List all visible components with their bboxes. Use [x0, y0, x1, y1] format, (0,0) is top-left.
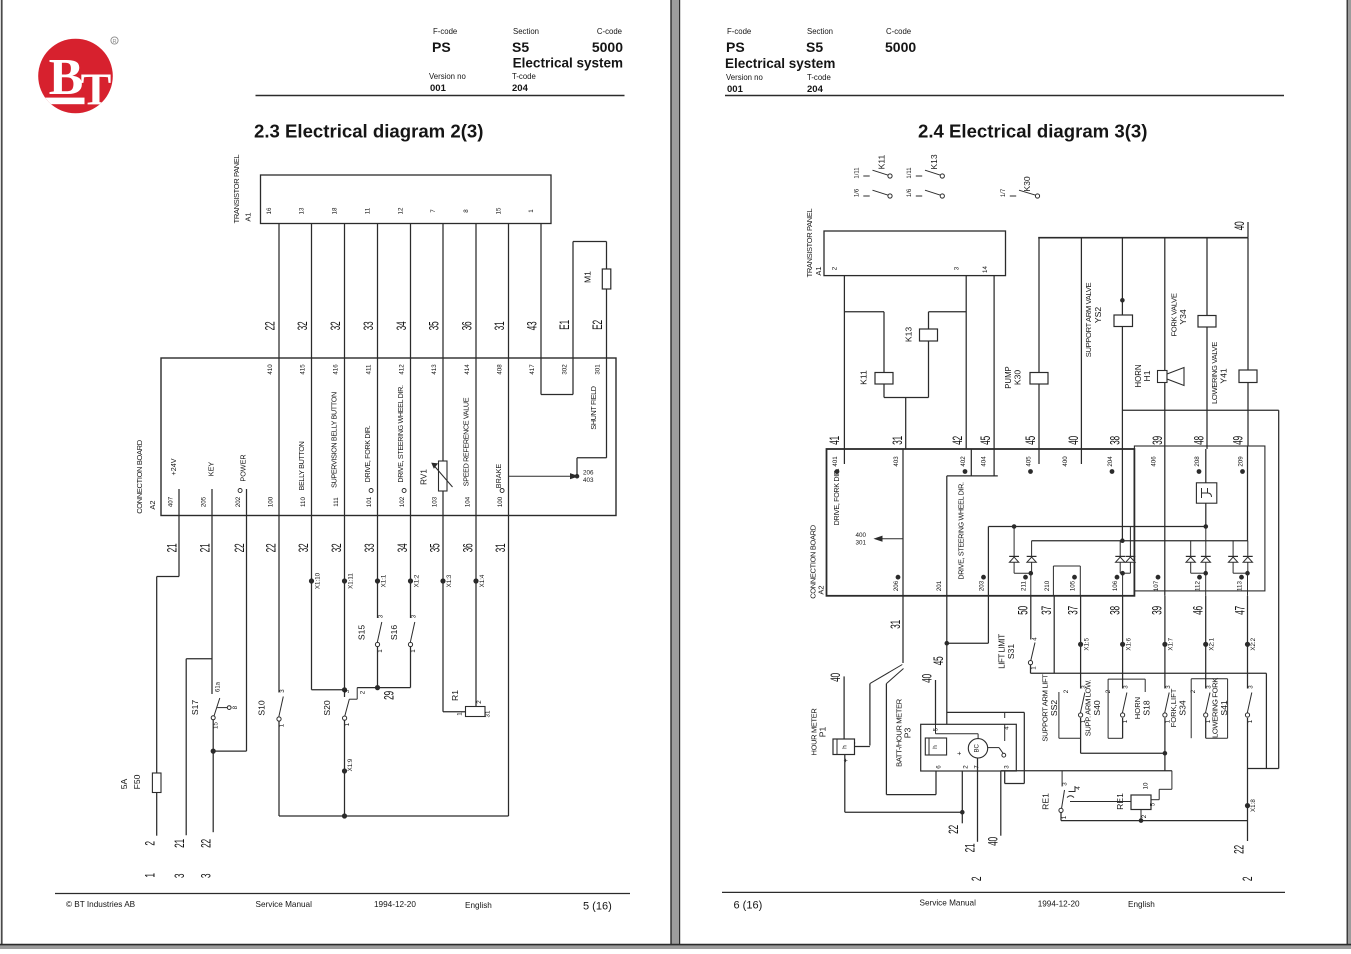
svg-text:PS: PS — [432, 39, 451, 55]
junction X1:7 label — [1168, 637, 1175, 650]
svg-text:211: 211 — [1021, 581, 1028, 591]
svg-text:6: 6 — [936, 765, 943, 769]
svg-text:22: 22 — [1232, 845, 1246, 854]
relay contact K11 1/11 — [855, 154, 893, 178]
svg-text:1994-12-20: 1994-12-20 — [1038, 900, 1080, 909]
wire 37 label — [1066, 606, 1080, 615]
svg-text:S16: S16 — [389, 625, 399, 641]
svg-text:402: 402 — [960, 456, 967, 467]
wire 40 stub (RE1 feed) — [986, 771, 1000, 846]
svg-text:415: 415 — [300, 364, 307, 375]
svg-text:22: 22 — [947, 825, 961, 834]
svg-text:R: R — [112, 39, 116, 45]
svg-text:1994-12-20: 1994-12-20 — [374, 900, 416, 909]
svg-text:Electrical system: Electrical system — [513, 56, 623, 71]
svg-text:15: 15 — [495, 207, 502, 214]
svg-text:T-code: T-code — [807, 73, 831, 82]
svg-text:F50: F50 — [132, 774, 142, 789]
svg-text:408: 408 — [497, 364, 504, 375]
svg-text:F-code: F-code — [727, 27, 751, 36]
svg-text:YS2: YS2 — [1093, 307, 1103, 323]
svg-text:16: 16 — [266, 207, 273, 214]
svg-text:410: 410 — [267, 364, 274, 375]
microswitch SS2 (SUPPORT ARM LIFT) — [1041, 596, 1088, 742]
svg-text:POWER: POWER — [239, 454, 248, 481]
support arm valve YS2 — [1084, 238, 1133, 449]
svg-text:X1:9: X1:9 — [347, 758, 354, 771]
svg-text:SPEED REFERENCE VALUE: SPEED REFERENCE VALUE — [462, 397, 471, 486]
svg-text:39: 39 — [1151, 436, 1165, 445]
svg-text:3: 3 — [1123, 685, 1130, 689]
connector A1 transistor panel (left page) — [232, 154, 551, 223]
svg-text:31: 31 — [494, 544, 508, 553]
svg-text:K11: K11 — [877, 154, 887, 169]
svg-text:38: 38 — [1108, 606, 1122, 615]
svg-text:+24V: +24V — [169, 458, 178, 475]
lift limit switch S31 — [998, 596, 1039, 670]
svg-text:X1:10: X1:10 — [314, 572, 321, 589]
wire 34 with junction X1:2 — [396, 516, 420, 619]
svg-text:X1:3: X1:3 — [446, 574, 453, 587]
svg-text:SS2: SS2 — [1049, 700, 1059, 716]
svg-text:31: 31 — [493, 322, 507, 331]
svg-text:E1: E1 — [558, 320, 572, 330]
svg-text:100: 100 — [497, 496, 504, 507]
svg-text:BRAKE: BRAKE — [494, 464, 503, 489]
svg-text:S5: S5 — [806, 39, 823, 55]
internal link pin417 to pin302 — [541, 358, 573, 395]
svg-text:203: 203 — [979, 580, 986, 591]
ground rail (left page bottom) — [279, 814, 509, 818]
svg-text:Electrical system: Electrical system — [725, 56, 835, 71]
svg-text:H1: H1 — [1142, 370, 1152, 381]
svg-text:407: 407 — [168, 496, 175, 507]
svg-text:3: 3 — [1165, 685, 1172, 689]
svg-text:101: 101 — [366, 496, 373, 507]
connection board A2 (left page) — [135, 358, 616, 516]
svg-text:© BT Industries AB: © BT Industries AB — [66, 900, 136, 909]
microswitch S18 (HORN) — [1133, 596, 1172, 723]
svg-text:11: 11 — [364, 207, 371, 214]
relay contact K11 1/6 — [855, 188, 893, 198]
svg-text:12: 12 — [397, 207, 404, 214]
svg-text:209: 209 — [1238, 456, 1245, 467]
ground bus to wire 22 (right page) — [1061, 806, 1255, 882]
svg-text:8: 8 — [463, 209, 470, 213]
junction X1:5 label — [1083, 637, 1090, 650]
wire 21 (+24V feed) with step — [157, 516, 180, 774]
A2 bottom pin labels 206..113 — [893, 575, 1244, 591]
wire P1 plus to wire 22 — [845, 755, 963, 813]
microswitch S41 (LOWERING FORK) — [1211, 596, 1255, 738]
S34 nc contact loop — [1190, 679, 1228, 738]
svg-text:A2: A2 — [817, 585, 826, 594]
svg-text:3: 3 — [378, 614, 385, 618]
svg-text:TRANSISTOR PANEL: TRANSISTOR PANEL — [232, 154, 241, 223]
wire 41 from A1 pin 2 — [828, 276, 884, 449]
svg-text:3: 3 — [1062, 782, 1069, 786]
svg-text:417: 417 — [529, 364, 536, 375]
svg-text:38: 38 — [1108, 436, 1122, 445]
svg-text:204: 204 — [1107, 456, 1114, 467]
svg-text:RV1: RV1 — [420, 469, 429, 485]
svg-text:P1: P1 — [818, 727, 828, 738]
svg-text:35: 35 — [428, 322, 442, 331]
svg-text:206: 206 — [583, 470, 594, 477]
svg-text:1/6: 1/6 — [855, 188, 861, 197]
diode pair 3 in A2 — [1186, 527, 1211, 596]
svg-text:50: 50 — [1016, 606, 1030, 615]
left page header block — [256, 27, 625, 96]
svg-text:21: 21 — [173, 839, 187, 848]
svg-text:CONNECTION BOARD: CONNECTION BOARD — [135, 439, 144, 514]
hour meter P1 — [810, 708, 860, 763]
svg-text:32: 32 — [297, 544, 311, 553]
svg-text:R1: R1 — [450, 690, 460, 701]
right page header block — [725, 27, 1284, 96]
svg-text:405: 405 — [1026, 456, 1033, 467]
wire 33 with junction X1:1 — [363, 516, 387, 619]
svg-text:PS: PS — [726, 39, 745, 55]
left page footer — [55, 894, 630, 913]
svg-text:X1:2: X1:2 — [413, 574, 420, 587]
svg-text:22: 22 — [265, 544, 279, 553]
svg-text:3: 3 — [1004, 765, 1011, 769]
svg-text:X1:6: X1:6 — [1125, 637, 1132, 650]
svg-text:Service Manual: Service Manual — [920, 899, 977, 908]
wire 32 with junction X1:11 — [330, 516, 354, 698]
svg-text:32: 32 — [330, 544, 344, 553]
svg-text:S31: S31 — [1006, 644, 1016, 660]
svg-text:English: English — [465, 901, 492, 910]
svg-text:Service Manual: Service Manual — [256, 900, 313, 909]
svg-text:29: 29 — [382, 691, 396, 700]
relay coil K13 — [904, 312, 967, 398]
svg-text:+: + — [843, 758, 850, 762]
wire 29 bus S20 to S15/S16 — [357, 686, 410, 700]
svg-text:5: 5 — [1150, 802, 1157, 806]
svg-text:Section: Section — [807, 27, 833, 36]
svg-text:Y41: Y41 — [1219, 368, 1229, 384]
svg-text:41: 41 — [828, 436, 842, 445]
diode pair 4 in A2 — [1228, 541, 1253, 596]
svg-text:A1: A1 — [814, 266, 823, 275]
svg-text:204: 204 — [512, 83, 529, 94]
svg-text:47: 47 — [1233, 606, 1247, 615]
wires A1 to A2: 22 32 32 33 34 35 36 31 43 — [264, 224, 541, 359]
svg-text:2: 2 — [360, 690, 367, 694]
svg-text:40: 40 — [920, 674, 934, 683]
motor element M1 — [583, 269, 611, 289]
svg-text:406: 406 — [1151, 456, 1158, 467]
wire below S20 junction X1:9 — [342, 720, 354, 816]
svg-text:Version no: Version no — [429, 72, 467, 81]
svg-text:C-code: C-code — [597, 27, 622, 36]
svg-text:36: 36 — [461, 322, 475, 331]
svg-text:32: 32 — [296, 322, 310, 331]
svg-text:10: 10 — [1143, 782, 1150, 789]
RE1 supply link — [1001, 771, 1172, 800]
svg-text:SUPPORT ARM VALVE: SUPPORT ARM VALVE — [1084, 282, 1093, 357]
svg-text:E2: E2 — [591, 320, 605, 330]
svg-text:S5: S5 — [512, 39, 529, 55]
svg-text:3: 3 — [954, 266, 961, 270]
svg-text:P3: P3 — [903, 728, 913, 739]
svg-text:36: 36 — [462, 544, 476, 553]
svg-text:1/7: 1/7 — [1001, 188, 1007, 197]
svg-text:5000: 5000 — [592, 39, 623, 55]
resistor R1 — [450, 690, 492, 718]
svg-text:210: 210 — [1044, 580, 1051, 591]
diode pair 2 in A2 — [1115, 527, 1135, 596]
svg-text:61a: 61a — [216, 681, 222, 692]
sub-box pins 210/105 in A2 — [1053, 566, 1080, 596]
svg-text:400: 400 — [856, 532, 867, 539]
svg-text:2: 2 — [963, 765, 970, 769]
batt/hour meter P3 — [895, 698, 1017, 771]
junction X1:6 label — [1125, 637, 1132, 650]
svg-text:39: 39 — [1151, 606, 1165, 615]
svg-text:401: 401 — [832, 456, 839, 467]
A2 bottom pin labels 407..100 — [168, 489, 505, 508]
svg-text:301: 301 — [856, 540, 867, 547]
svg-text:411: 411 — [366, 364, 373, 374]
svg-text:4: 4 — [1075, 786, 1082, 790]
wire 36 with junction X1:4 — [462, 516, 486, 707]
wire 40 rail to A2 pin 400 — [1067, 238, 1081, 449]
svg-text:45: 45 — [1024, 436, 1038, 445]
relay contact RE1 — [1041, 771, 1083, 821]
A2 top pin labels 410..301 — [267, 364, 602, 375]
relay check element in A2 (pin 208 column) — [1196, 449, 1216, 527]
svg-text:1: 1 — [528, 209, 535, 213]
svg-text:3: 3 — [411, 614, 418, 618]
svg-text:416: 416 — [333, 364, 340, 375]
svg-text:Section: Section — [513, 27, 539, 36]
svg-text:DRIVE, FORK DIR.: DRIVE, FORK DIR. — [363, 425, 372, 482]
wire 31 to ground rail — [494, 516, 508, 817]
svg-text:A1: A1 — [244, 212, 253, 221]
diode matrix rails inside A2 — [988, 446, 1247, 596]
svg-text:h: h — [842, 745, 849, 749]
svg-text:Y34: Y34 — [1178, 309, 1188, 325]
svg-text:2: 2 — [1141, 814, 1148, 818]
branch from wire 38 down right side — [1122, 410, 1278, 768]
wire E2 — [591, 242, 607, 359]
svg-text:103: 103 — [432, 496, 439, 507]
svg-text:4: 4 — [1032, 637, 1039, 641]
svg-text:403: 403 — [583, 477, 594, 484]
svg-text:6 (16): 6 (16) — [734, 900, 763, 912]
switch S16 — [389, 614, 418, 687]
svg-text:40: 40 — [829, 673, 843, 682]
lowering valve Y41 — [1210, 238, 1257, 446]
wire 40 stub to P3 pin5 — [920, 674, 935, 724]
relay contact K13 1/6 — [907, 188, 944, 198]
svg-text:M1: M1 — [583, 271, 593, 283]
svg-text:22: 22 — [233, 544, 247, 553]
relay contact K13 1/11 — [907, 154, 944, 178]
svg-text:X1:8: X1:8 — [1250, 799, 1257, 812]
wire P3 pin6 to wire31 pointer — [886, 684, 936, 795]
svg-text:8: 8 — [232, 705, 239, 709]
wire 45 A2 pin201/203 to P3 — [932, 596, 988, 724]
svg-text:RE1: RE1 — [1041, 793, 1051, 810]
svg-text:DRIVE, STEERING WHEEL DIR.: DRIVE, STEERING WHEEL DIR. — [957, 482, 966, 580]
pump contactor coil K30 — [1004, 238, 1048, 449]
wire 21 from P3 pin7 — [963, 758, 984, 881]
svg-text:33: 33 — [363, 544, 377, 553]
switched supply bus below S31 — [1031, 665, 1267, 769]
wire 22 (power) joining S17 output — [213, 516, 247, 752]
svg-text:113: 113 — [1237, 581, 1244, 591]
wire 45 from A1 pin 14 — [979, 276, 994, 449]
svg-text:K13: K13 — [929, 154, 939, 170]
svg-text:1/6: 1/6 — [907, 188, 913, 197]
svg-text:S34: S34 — [1178, 700, 1188, 716]
svg-text:X1:4: X1:4 — [479, 574, 486, 587]
svg-text:13: 13 — [298, 207, 305, 214]
svg-text:X2:1: X2:1 — [1208, 637, 1215, 650]
svg-text:45: 45 — [979, 436, 993, 445]
svg-text:+: + — [957, 751, 964, 755]
right page title — [918, 121, 1147, 142]
svg-text:105: 105 — [1070, 580, 1077, 591]
wire 39 label below A2 — [1151, 606, 1165, 615]
svg-text:102: 102 — [399, 496, 406, 507]
wire E1 — [558, 242, 607, 359]
svg-text:110: 110 — [300, 497, 307, 507]
svg-text:A2: A2 — [148, 500, 157, 509]
svg-text:S20: S20 — [322, 700, 332, 716]
svg-text:104: 104 — [465, 496, 472, 507]
svg-text:42: 42 — [951, 436, 965, 445]
svg-text:K30: K30 — [1022, 176, 1032, 192]
svg-text:S40: S40 — [1092, 700, 1102, 716]
svg-text:21: 21 — [165, 544, 179, 553]
key switch S17 — [190, 681, 239, 729]
wire 37 pin210 to bus — [1040, 596, 1054, 674]
svg-text:40: 40 — [1067, 436, 1081, 445]
svg-text:001: 001 — [727, 84, 744, 95]
svg-text:1: 1 — [1061, 815, 1068, 819]
svg-text:414: 414 — [464, 364, 471, 375]
svg-text:3: 3 — [279, 689, 286, 693]
wire 2 to battery — [143, 793, 157, 878]
svg-text:49: 49 — [1231, 436, 1245, 445]
svg-text:K13: K13 — [904, 327, 914, 343]
svg-text:112: 112 — [1195, 581, 1202, 591]
svg-text:S17: S17 — [190, 700, 200, 716]
A2 section labels — [832, 468, 966, 579]
svg-text:F-code: F-code — [433, 27, 457, 36]
wire 31 below A2 with pointer — [870, 596, 904, 684]
svg-text:001: 001 — [430, 83, 447, 94]
svg-text:204: 204 — [807, 84, 824, 95]
A2 internal column wires — [179, 358, 509, 516]
relay coil K11 — [859, 312, 894, 398]
svg-text:TRANSISTOR PANEL: TRANSISTOR PANEL — [805, 208, 814, 277]
right page footer — [722, 892, 1285, 911]
svg-text:34: 34 — [396, 544, 410, 553]
svg-text:X1:11: X1:11 — [347, 573, 354, 589]
svg-text:107: 107 — [1153, 580, 1160, 591]
svg-text:7: 7 — [430, 209, 437, 213]
svg-text:413: 413 — [431, 364, 438, 375]
svg-text:X1:7: X1:7 — [1168, 637, 1175, 650]
wire P3 pin3/pin4 loop — [947, 712, 1025, 783]
switch S10 belly button — [257, 689, 287, 728]
svg-text:206: 206 — [893, 580, 900, 591]
relay coil RE1 — [1070, 782, 1157, 821]
svg-text:21: 21 — [198, 544, 212, 553]
wire P1 minus to wire31 pointer — [855, 684, 870, 747]
microswitch S40 (SUPP. ARM LOW.) — [1084, 596, 1130, 736]
svg-text:S10: S10 — [257, 700, 267, 716]
wire 21 branch to battery — [173, 659, 187, 878]
fuse F50 5A — [119, 773, 161, 793]
potentiometer RV1 — [420, 461, 453, 491]
svg-text:Version no: Version no — [726, 73, 764, 82]
fork valve Y34 — [1170, 238, 1217, 449]
svg-text:37: 37 — [1040, 606, 1054, 615]
SS2 nc contact loop — [1059, 689, 1081, 753]
junction X2:1 label — [1208, 637, 1215, 650]
S41 output to X1:8 — [1245, 718, 1278, 812]
svg-text:1: 1 — [1031, 666, 1038, 670]
svg-text:22: 22 — [264, 322, 278, 331]
svg-text:h: h — [932, 745, 939, 749]
A2 top pin labels 401..209 — [832, 456, 1245, 474]
A2 internal wiring: pin columns — [844, 449, 1164, 596]
svg-text:205: 205 — [201, 496, 208, 507]
svg-text:1/11: 1/11 — [907, 167, 913, 179]
svg-text:S41: S41 — [1219, 700, 1229, 716]
wire from S10 to ground rail — [278, 721, 280, 816]
S40/S18 nc contact bridge — [1105, 679, 1145, 738]
svg-text:3: 3 — [344, 689, 351, 693]
relay contact K30 1/7 — [1001, 176, 1040, 198]
wire 22 below S17 to battery — [199, 720, 215, 878]
svg-text:BELLY BUTTON: BELLY BUTTON — [297, 441, 306, 490]
svg-text:S15: S15 — [357, 625, 367, 641]
svg-text:SUPERVISION BELLY BUTTON: SUPERVISION BELLY BUTTON — [330, 392, 339, 488]
svg-text:2: 2 — [970, 877, 984, 881]
svg-text:22: 22 — [199, 839, 213, 848]
wire 31 relay common to A2 — [884, 398, 929, 450]
connection board A2 right section box — [1134, 446, 1265, 591]
A2 internal signal name labels — [169, 385, 503, 490]
svg-text:2: 2 — [476, 700, 483, 704]
svg-text:111: 111 — [333, 497, 340, 507]
supply rail 40 (top right) — [1038, 222, 1248, 238]
svg-text:X1:1: X1:1 — [380, 574, 387, 587]
svg-text:201: 201 — [936, 580, 943, 591]
svg-text:31: 31 — [891, 436, 905, 445]
svg-text:40: 40 — [1233, 222, 1247, 231]
wire 46 label below A2 — [1191, 606, 1205, 615]
svg-text:43: 43 — [526, 322, 540, 331]
svg-text:2.3 Electrical diagram 2(3): 2.3 Electrical diagram 2(3) — [254, 121, 483, 142]
svg-text:5A: 5A — [119, 778, 129, 789]
svg-text:3: 3 — [173, 874, 187, 878]
BT company logo — [36, 37, 118, 115]
horn bus wire — [1081, 718, 1167, 771]
svg-text:106: 106 — [1112, 580, 1119, 591]
svg-text:34: 34 — [395, 322, 409, 331]
svg-text:1: 1 — [143, 873, 157, 877]
wire 38 label below A2 — [1108, 606, 1122, 615]
